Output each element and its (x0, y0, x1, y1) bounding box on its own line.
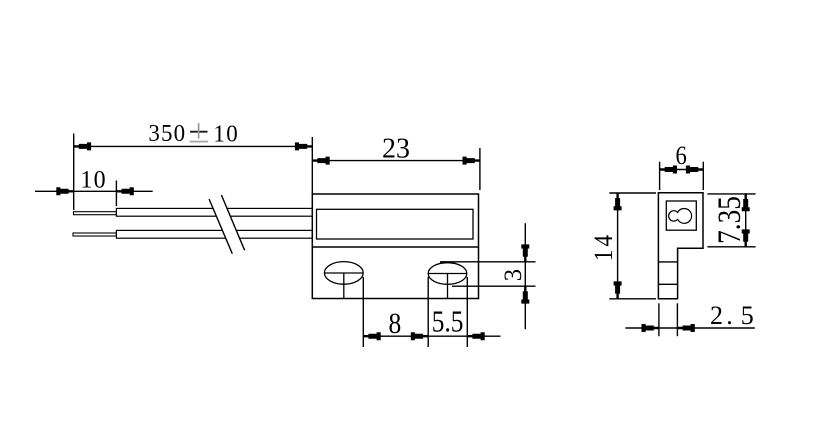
arrow 10 left (outside) (56, 187, 73, 195)
break line 2 (221, 195, 244, 250)
wire bottom insulated (116, 230, 312, 238)
arrow 23 left (312, 157, 329, 165)
dimension 2.5 line (625, 327, 754, 329)
side view L-shape outline (658, 193, 703, 299)
dimension 350+-10 line (74, 145, 313, 147)
svg-text:350: 350 (148, 120, 186, 147)
left slot chord (324, 272, 363, 274)
arrow 5.5 right (outside) (467, 332, 484, 340)
arrow 7.35 top (742, 194, 750, 211)
dimension 3 line (524, 223, 526, 329)
arrow 10 right (outside) (116, 187, 133, 195)
left slot hole (324, 262, 363, 285)
arrow 3 top (outside, pointing down) (521, 244, 529, 261)
arrow 2.5 right (outside) (677, 324, 694, 332)
body outline (312, 194, 478, 299)
extension line 23 right (479, 148, 481, 190)
label plus-minus (190, 123, 209, 142)
dimension 23 line (312, 160, 480, 162)
dimension 14 line (617, 193, 619, 299)
extension line body left (311, 137, 313, 194)
extension line 3 bottom (452, 285, 536, 287)
body step line (312, 246, 478, 248)
extension line 7.35 bottom (707, 246, 755, 248)
dimension 6 line (660, 169, 704, 171)
wire top bare (74, 212, 117, 215)
svg-text:23: 23 (382, 133, 410, 164)
break line 1 (209, 199, 232, 254)
side view slot edge lower (658, 283, 677, 285)
arrow 7.35 bottom (742, 229, 750, 246)
dimension 10 line (35, 190, 153, 192)
arrow 2.5 left (outside) (642, 324, 659, 332)
extension line 8/5.5 middle (427, 277, 429, 347)
right slot chord (428, 273, 467, 275)
side view slot edge upper (658, 261, 677, 263)
extension line left (wire end) (73, 134, 75, 211)
svg-text:2.5: 2.5 (710, 301, 754, 330)
wire break gap (209, 195, 245, 254)
svg-text:14: 14 (590, 232, 619, 261)
svg-text:7.35: 7.35 (712, 196, 748, 244)
wire top insulated (116, 208, 312, 216)
arrow 350 left (74, 142, 91, 150)
arrow 350 right (295, 142, 312, 150)
extension line 2.5 left (658, 303, 660, 336)
side view inner rect (666, 201, 696, 230)
extension line 10 right (115, 181, 117, 207)
side view keyhole (669, 208, 692, 223)
extension line 5.5 right (466, 277, 468, 347)
extension line 3 top (440, 261, 536, 263)
arrow 3 bottom (outside, pointing up) (521, 286, 529, 303)
arrow 23 right (463, 157, 480, 165)
arrow 8 left (363, 332, 380, 340)
extension line 8 left (362, 277, 364, 347)
extension line 14 bottom (609, 298, 656, 300)
svg-text:10: 10 (213, 121, 239, 148)
svg-text:10: 10 (80, 166, 106, 194)
arrow 8 right (411, 332, 428, 340)
arrow 6 left (660, 166, 677, 174)
dimension 5.5 tail (467, 335, 500, 337)
extension line 6 left (659, 162, 661, 190)
arrow 14 bottom (614, 281, 622, 298)
extension line 2.5 right (676, 303, 678, 336)
arrow 6 right (686, 166, 703, 174)
right slot center line (447, 274, 449, 300)
wire bottom bare (73, 233, 116, 236)
reed slot inner rect (317, 209, 474, 239)
extension line 7.35 top (707, 193, 755, 195)
extension line 14 top (609, 192, 656, 194)
dimension 5.5 line (428, 335, 467, 337)
arrow 14 top (614, 193, 622, 210)
svg-text:8: 8 (389, 306, 402, 339)
extension line 6 right (702, 162, 704, 190)
right slot hole (428, 263, 467, 285)
svg-text:5.5: 5.5 (432, 305, 464, 339)
left slot center line (343, 273, 345, 299)
dimension 8 line (363, 335, 428, 337)
dimension 7.35 line (745, 194, 747, 247)
svg-text:6: 6 (675, 141, 686, 170)
svg-text:3: 3 (500, 269, 527, 281)
